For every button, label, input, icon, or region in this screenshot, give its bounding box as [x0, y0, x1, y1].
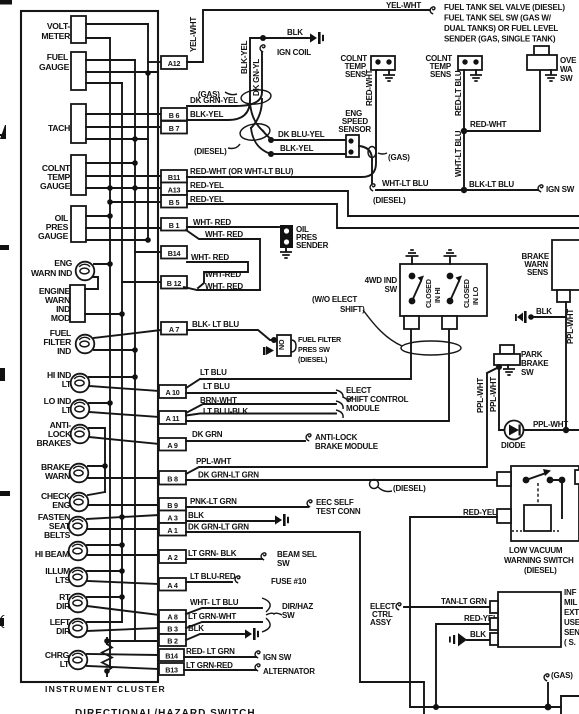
- svg-text:WHT-LT BLU: WHT-LT BLU: [382, 179, 429, 188]
- svg-text:LT BLU-RED: LT BLU-RED: [190, 572, 236, 581]
- svg-text:B 2: B 2: [167, 637, 178, 646]
- left dir lamp wires: [87, 622, 159, 631]
- svg-text:SW: SW: [277, 559, 290, 568]
- b5 interior stub: [110, 201, 161, 203]
- bottom right component box corner: [561, 696, 579, 714]
- connector pin A10: [159, 385, 186, 398]
- svg-text:ENG: ENG: [52, 500, 70, 510]
- low vac switch contacts: [523, 477, 530, 484]
- svg-text:SW: SW: [521, 368, 534, 377]
- junction dot on blk wire: [260, 35, 266, 41]
- svg-text:DUAL TANKS) OR FUEL LEVEL: DUAL TANKS) OR FUEL LEVEL: [444, 24, 558, 33]
- connector pin B13: [159, 663, 184, 675]
- warn mod to b12 wire: [85, 282, 161, 314]
- svg-text:A 9: A 9: [167, 441, 178, 450]
- coolant gauge stub wires: [86, 163, 161, 188]
- svg-text:TEST CONN: TEST CONN: [316, 507, 361, 516]
- svg-text:(GAS): (GAS): [388, 153, 410, 162]
- wire A11 to 4wd right: [186, 329, 449, 421]
- svg-text:BLK: BLK: [188, 624, 204, 633]
- fuel filter ind lamp: [76, 335, 95, 354]
- svg-text:LT: LT: [62, 379, 72, 389]
- svg-text:B 8: B 8: [167, 475, 178, 484]
- diesel splice loop on wire: [370, 480, 379, 489]
- svg-text:BLK-YEL: BLK-YEL: [190, 110, 224, 119]
- fuel gauge: [71, 52, 86, 90]
- blk-lt blu wire to ign sw: [461, 187, 467, 193]
- svg-text:BLK-YEL: BLK-YEL: [280, 144, 314, 153]
- connector pin B11: [161, 170, 187, 183]
- svg-text:B 1: B 1: [169, 221, 180, 230]
- overheat warn sw: [534, 46, 549, 55]
- svg-text:DIRECTIONAL/HAZARD SWITCH: DIRECTIONAL/HAZARD SWITCH: [75, 708, 256, 714]
- svg-text:A 11: A 11: [166, 414, 180, 423]
- svg-text:SENDER: SENDER: [296, 241, 329, 250]
- lo ind lamp wires: [89, 403, 159, 417]
- svg-text:A13: A13: [168, 186, 181, 195]
- interior bus V2 x110: [109, 38, 111, 667]
- 4wd grounds: [411, 260, 413, 264]
- svg-text:FUEL: FUEL: [47, 52, 68, 62]
- margin letter B: [0, 368, 5, 381]
- engine warn ind mod box: [70, 285, 85, 322]
- svg-text:INF: INF: [564, 588, 577, 597]
- svg-text:RED-YEL: RED-YEL: [463, 508, 497, 517]
- svg-text:BRAKES: BRAKES: [37, 438, 72, 448]
- rt dir lamp wires: [87, 597, 159, 615]
- svg-text:NO: NO: [277, 339, 286, 350]
- svg-text:WHT- LT BLU: WHT- LT BLU: [190, 598, 239, 607]
- wire blk-yel to eng speed sensor: [268, 151, 274, 157]
- wire dk blu-yel to eng speed sensor: [268, 137, 274, 143]
- svg-text:SENS: SENS: [430, 70, 452, 79]
- svg-text:METER: METER: [41, 31, 71, 41]
- svg-text:IGN SW: IGN SW: [263, 653, 292, 662]
- svg-text:A 1: A 1: [167, 526, 178, 535]
- svg-text:DIR/HAZ: DIR/HAZ: [282, 602, 313, 611]
- a12 interior stub: [148, 61, 161, 63]
- connector pin B6: [161, 108, 187, 121]
- svg-text:BLK- LT BLU: BLK- LT BLU: [192, 320, 239, 329]
- svg-text:INSTRUMENT CLUSTER: INSTRUMENT CLUSTER: [45, 684, 166, 694]
- svg-text:DIR: DIR: [56, 626, 71, 636]
- svg-text:DK GRN: DK GRN: [192, 430, 223, 439]
- svg-text:BEAM SEL: BEAM SEL: [277, 550, 317, 559]
- svg-text:FUEL TANK SEL SW (GAS W/: FUEL TANK SEL SW (GAS W/: [444, 14, 552, 23]
- svg-text:CLOSED: CLOSED: [462, 279, 471, 308]
- svg-text:LT GRN-WHT: LT GRN-WHT: [188, 612, 236, 621]
- svg-text:A 7: A 7: [169, 325, 180, 334]
- voltmeter gauge: [71, 16, 86, 43]
- svg-text:B13: B13: [165, 666, 178, 675]
- svg-text:B 5: B 5: [169, 198, 180, 207]
- connector to ign coil blk: [310, 32, 324, 44]
- svg-text:WARN IND: WARN IND: [31, 268, 72, 278]
- oil pressure gauge: [71, 206, 86, 242]
- svg-text:SHIFT): SHIFT): [340, 305, 365, 314]
- margin dash 1: [0, 245, 9, 250]
- 4wd switch lo: [450, 281, 459, 301]
- svg-text:4WD IND: 4WD IND: [365, 276, 398, 285]
- fasten lamp wires: [87, 515, 159, 529]
- low vacuum warning switch box: [511, 466, 579, 541]
- svg-text:PARK: PARK: [521, 350, 543, 359]
- svg-text:EXT: EXT: [564, 608, 579, 617]
- svg-text:VOLT-: VOLT-: [47, 21, 71, 31]
- svg-text:ALTERNATOR: ALTERNATOR: [263, 667, 315, 676]
- tach stub wires: [86, 114, 161, 139]
- svg-text:A 10: A 10: [165, 388, 179, 397]
- svg-text:SENSOR: SENSOR: [338, 125, 371, 134]
- svg-text:DK GRN-LT GRN: DK GRN-LT GRN: [188, 523, 249, 532]
- chrg lamp wires: [87, 654, 159, 669]
- eng warn ind lamp: [76, 262, 95, 281]
- svg-text:YEL-WHT: YEL-WHT: [386, 1, 421, 10]
- connector pin A12: [161, 56, 187, 69]
- connector pin B14 lower: [159, 649, 184, 661]
- svg-text:PNK-LT GRN: PNK-LT GRN: [190, 497, 237, 506]
- svg-text:TAN-LT GRN: TAN-LT GRN: [441, 597, 487, 606]
- svg-text:SHIFT CONTROL: SHIFT CONTROL: [346, 395, 409, 404]
- brake warn lamp wires: [88, 466, 159, 478]
- svg-text:LT GRN- BLK: LT GRN- BLK: [188, 549, 237, 558]
- park brake sw: [500, 345, 514, 354]
- svg-text:B 7: B 7: [169, 124, 180, 133]
- diesel splice loop: [239, 122, 271, 142]
- svg-text:CLOSED: CLOSED: [424, 279, 433, 308]
- svg-text:IGN SW: IGN SW: [546, 185, 575, 194]
- svg-text:DK BLU-YEL: DK BLU-YEL: [278, 130, 325, 139]
- svg-text:PPL-WHT: PPL-WHT: [533, 420, 568, 429]
- svg-text:LT GRN-RED: LT GRN-RED: [186, 661, 233, 670]
- svg-text:A 8: A 8: [167, 613, 178, 622]
- ign coil label: [260, 45, 265, 52]
- junction dots interior: [145, 70, 151, 76]
- svg-text:SW: SW: [282, 611, 295, 620]
- svg-text:RED-YEL: RED-YEL: [190, 195, 224, 204]
- svg-text:DK GRN-LT GRN: DK GRN-LT GRN: [198, 471, 259, 480]
- connector pin B3: [159, 622, 186, 634]
- blk inline connector to sens wire: [531, 316, 566, 318]
- svg-text:WHT- RED: WHT- RED: [193, 218, 231, 227]
- fuel tank sel valve text block: [430, 7, 435, 14]
- svg-text:B 6: B 6: [169, 111, 180, 120]
- svg-text:WA: WA: [560, 65, 573, 74]
- svg-text:RED-WHT: RED-WHT: [470, 120, 507, 129]
- fuel filter pres sw: [271, 337, 277, 343]
- connector pin A3: [159, 511, 186, 524]
- interior bus V4 x122: [121, 83, 123, 622]
- svg-text:PPL-WHT: PPL-WHT: [566, 309, 575, 344]
- svg-text:EEC SELF: EEC SELF: [316, 498, 354, 507]
- svg-text:SEN: SEN: [564, 628, 579, 637]
- connector pin A4: [159, 578, 186, 591]
- ppl-wht wires from park brake: [487, 367, 499, 430]
- svg-text:BLK: BLK: [287, 28, 303, 37]
- illum lts lamp: [69, 568, 88, 587]
- coolant temp gauge: [71, 155, 86, 195]
- voltmeter stub wires: [86, 24, 148, 38]
- svg-text:FUEL TANK SEL VALVE (DIESEL): FUEL TANK SEL VALVE (DIESEL): [444, 3, 565, 12]
- svg-text:BLK: BLK: [188, 511, 204, 520]
- svg-text:ANTI-LOCK: ANTI-LOCK: [315, 433, 358, 442]
- dk gn-yl vertical wire: [261, 52, 263, 92]
- svg-text:FUEL FILTER: FUEL FILTER: [298, 335, 342, 344]
- left dir lamp: [69, 619, 88, 638]
- svg-text:USE: USE: [564, 618, 579, 627]
- dir/haz brace: [262, 598, 282, 632]
- svg-text:MIL: MIL: [564, 598, 577, 607]
- svg-text:(W/O ELECT: (W/O ELECT: [312, 295, 357, 304]
- gas splice loop: [240, 88, 271, 105]
- svg-text:LTS: LTS: [55, 575, 70, 585]
- svg-text:GAUGE: GAUGE: [39, 62, 70, 72]
- svg-text:SENDER (GAS, SINGLE TANK): SENDER (GAS, SINGLE TANK): [444, 35, 556, 44]
- fuel gauge stub wires: [86, 60, 157, 83]
- svg-text:PPL-WHT: PPL-WHT: [489, 377, 498, 412]
- wht-lt blu wire to junction: [370, 184, 375, 191]
- lo ind lt lamp: [71, 400, 90, 419]
- interior bus V1 x148: [147, 24, 149, 240]
- illum lamp wires: [87, 571, 159, 584]
- svg-text:WHT- RED: WHT- RED: [191, 253, 229, 262]
- svg-text:BRAKE: BRAKE: [521, 359, 549, 368]
- svg-text:B14: B14: [168, 249, 181, 258]
- svg-text:RED-WHT: RED-WHT: [365, 69, 374, 106]
- blk-yel vertical wire: [250, 38, 309, 100]
- svg-text:ENG: ENG: [54, 258, 72, 268]
- svg-text:SW: SW: [560, 74, 573, 83]
- svg-text:B14: B14: [165, 652, 178, 661]
- connector pin B1: [161, 218, 187, 231]
- anti-lock brakes lamp: [71, 425, 90, 444]
- fuel filter lamp wires: [94, 330, 161, 350]
- svg-text:LT: LT: [62, 405, 72, 415]
- svg-text:TACH: TACH: [48, 123, 70, 133]
- check eng lamp wires: [88, 492, 159, 505]
- svg-text:B 9: B 9: [167, 501, 178, 510]
- svg-text:ASSY: ASSY: [370, 618, 392, 627]
- svg-text:SENS: SENS: [345, 70, 367, 79]
- margin dash 2: [0, 491, 10, 496]
- b14 interior stub: [135, 251, 161, 253]
- tach gauge: [71, 104, 86, 143]
- svg-text:A 3: A 3: [167, 514, 178, 523]
- svg-text:GAUGE: GAUGE: [38, 231, 69, 241]
- 4wd ind sw box: [400, 264, 487, 316]
- svg-text:A 2: A 2: [167, 553, 178, 562]
- oil gauge stub wires: [86, 216, 161, 240]
- svg-text:OVE: OVE: [560, 56, 577, 65]
- svg-text:GAUGE: GAUGE: [40, 181, 71, 191]
- svg-text:LT BLU: LT BLU: [200, 368, 227, 377]
- margin letter A: [0, 125, 6, 139]
- diode: [499, 429, 579, 431]
- hi ind lt lamp: [71, 374, 90, 393]
- connector pin A9: [159, 438, 186, 451]
- svg-text:B 3: B 3: [167, 625, 178, 634]
- ppl-wht from brake warn sens: [565, 302, 567, 430]
- margin letter C: [0, 615, 5, 628]
- svg-text:A 4: A 4: [167, 581, 178, 590]
- svg-text:BLK-YEL: BLK-YEL: [240, 40, 249, 74]
- fasten seat belts lamp: [69, 517, 88, 536]
- svg-text:BLK: BLK: [536, 307, 552, 316]
- svg-text:RED-YEL: RED-YEL: [190, 181, 224, 190]
- svg-text:WARN: WARN: [45, 471, 70, 481]
- connector pin A8: [159, 610, 186, 622]
- wire A12 yel-wht: [187, 10, 430, 62]
- svg-text:A12: A12: [168, 59, 181, 68]
- connector pin B8: [159, 471, 186, 485]
- svg-text:PRES SW: PRES SW: [298, 345, 330, 354]
- red-lt blu vertical wire: [463, 70, 465, 190]
- eng warn lamp wires: [85, 264, 110, 289]
- svg-text:IN HI: IN HI: [433, 287, 442, 303]
- svg-text:HI BEAM: HI BEAM: [35, 549, 69, 559]
- svg-text:YEL-WHT: YEL-WHT: [189, 17, 198, 52]
- svg-text:LT: LT: [60, 659, 70, 669]
- connector pin B9: [159, 498, 186, 511]
- check eng lamp: [70, 493, 89, 512]
- hi beam lamp wires: [87, 545, 159, 555]
- svg-text:(DIESEL): (DIESEL): [298, 355, 328, 364]
- svg-text:SENS: SENS: [527, 268, 549, 277]
- interior bus V3 x135: [134, 60, 136, 641]
- connector pin B5: [161, 195, 187, 208]
- svg-text:RED-LT BLU: RED-LT BLU: [454, 70, 463, 116]
- svg-text:(GAS): (GAS): [551, 671, 573, 680]
- connector pin B14: [161, 246, 187, 259]
- svg-text:IGN COIL: IGN COIL: [277, 48, 311, 57]
- svg-text:RED-WHT (OR WHT-LT BLU): RED-WHT (OR WHT-LT BLU): [190, 167, 294, 176]
- connector pin B12: [161, 276, 187, 289]
- svg-text:BELTS: BELTS: [44, 530, 71, 540]
- red-wht jumper to overheat sw: [461, 128, 467, 134]
- svg-text:MOD: MOD: [51, 313, 70, 323]
- svg-text:(DIESEL): (DIESEL): [373, 196, 406, 205]
- svg-text:PPL-WHT: PPL-WHT: [196, 457, 231, 466]
- svg-text:B 12: B 12: [167, 279, 182, 288]
- oil pres sender: [280, 225, 293, 248]
- hi beam lamp: [69, 542, 88, 561]
- connector pin B2: [159, 634, 186, 646]
- svg-text:FUSE #10: FUSE #10: [271, 577, 307, 586]
- margin mark top-left: [0, 0, 12, 5]
- svg-text:BRAKE MODULE: BRAKE MODULE: [315, 442, 379, 451]
- svg-text:IND: IND: [57, 346, 71, 356]
- rt dir lamp: [69, 594, 88, 613]
- svg-text:(GAS): (GAS): [198, 90, 220, 99]
- svg-text:BLK: BLK: [470, 630, 486, 639]
- svg-text:DIR: DIR: [56, 601, 71, 611]
- brake warn lamp: [70, 464, 89, 483]
- sensor box (bottom right): [498, 592, 561, 647]
- svg-text:(DIESEL): (DIESEL): [524, 566, 557, 575]
- connector pin A7: [161, 322, 187, 335]
- svg-text:WHT-RED: WHT-RED: [205, 270, 241, 279]
- svg-text:WHT-LT BLU: WHT-LT BLU: [454, 130, 463, 177]
- gas break drop from sensor: [359, 146, 372, 183]
- chrg lt lamp: [69, 651, 88, 670]
- loop around 4wd wires: [363, 310, 402, 346]
- svg-text:( S.: ( S.: [564, 638, 576, 647]
- svg-text:ELECT: ELECT: [346, 386, 372, 395]
- low vac inner element: [524, 505, 551, 531]
- svg-text:WARNING SWITCH: WARNING SWITCH: [504, 556, 574, 565]
- svg-text:IN LO: IN LO: [471, 286, 480, 305]
- svg-text:RED- LT GRN: RED- LT GRN: [186, 647, 235, 656]
- connector pin A1: [159, 523, 186, 536]
- svg-text:BLK-LT BLU: BLK-LT BLU: [469, 180, 514, 189]
- svg-text:LT BLU: LT BLU: [203, 382, 230, 391]
- connector pin A2: [159, 550, 186, 563]
- svg-text:LOW VACUUM: LOW VACUUM: [509, 546, 563, 555]
- svg-text:(DIESEL): (DIESEL): [393, 484, 426, 493]
- instrument cluster box: [21, 11, 158, 682]
- svg-text:PPL-WHT: PPL-WHT: [476, 378, 485, 413]
- svg-text:MODULE: MODULE: [346, 404, 380, 413]
- connector pin A11: [159, 411, 186, 424]
- elect shift control module brace: [336, 390, 353, 418]
- hi ind lamp wires: [89, 377, 159, 391]
- 4wd switch hi: [409, 273, 416, 280]
- anti-lock lamp wires: [89, 428, 159, 492]
- resistor R by chrg lamp: [102, 644, 112, 671]
- 4wd connector tabs: [404, 316, 419, 329]
- connector pin B7: [161, 121, 187, 134]
- connector pin A13: [161, 183, 187, 196]
- svg-text:(DIESEL): (DIESEL): [194, 147, 227, 156]
- svg-text:DIODE: DIODE: [501, 441, 526, 450]
- svg-text:B11: B11: [168, 173, 180, 182]
- svg-text:WHT- RED: WHT- RED: [205, 230, 243, 239]
- svg-text:LT BLU-BLK: LT BLU-BLK: [203, 407, 248, 416]
- svg-text:SW: SW: [385, 285, 398, 294]
